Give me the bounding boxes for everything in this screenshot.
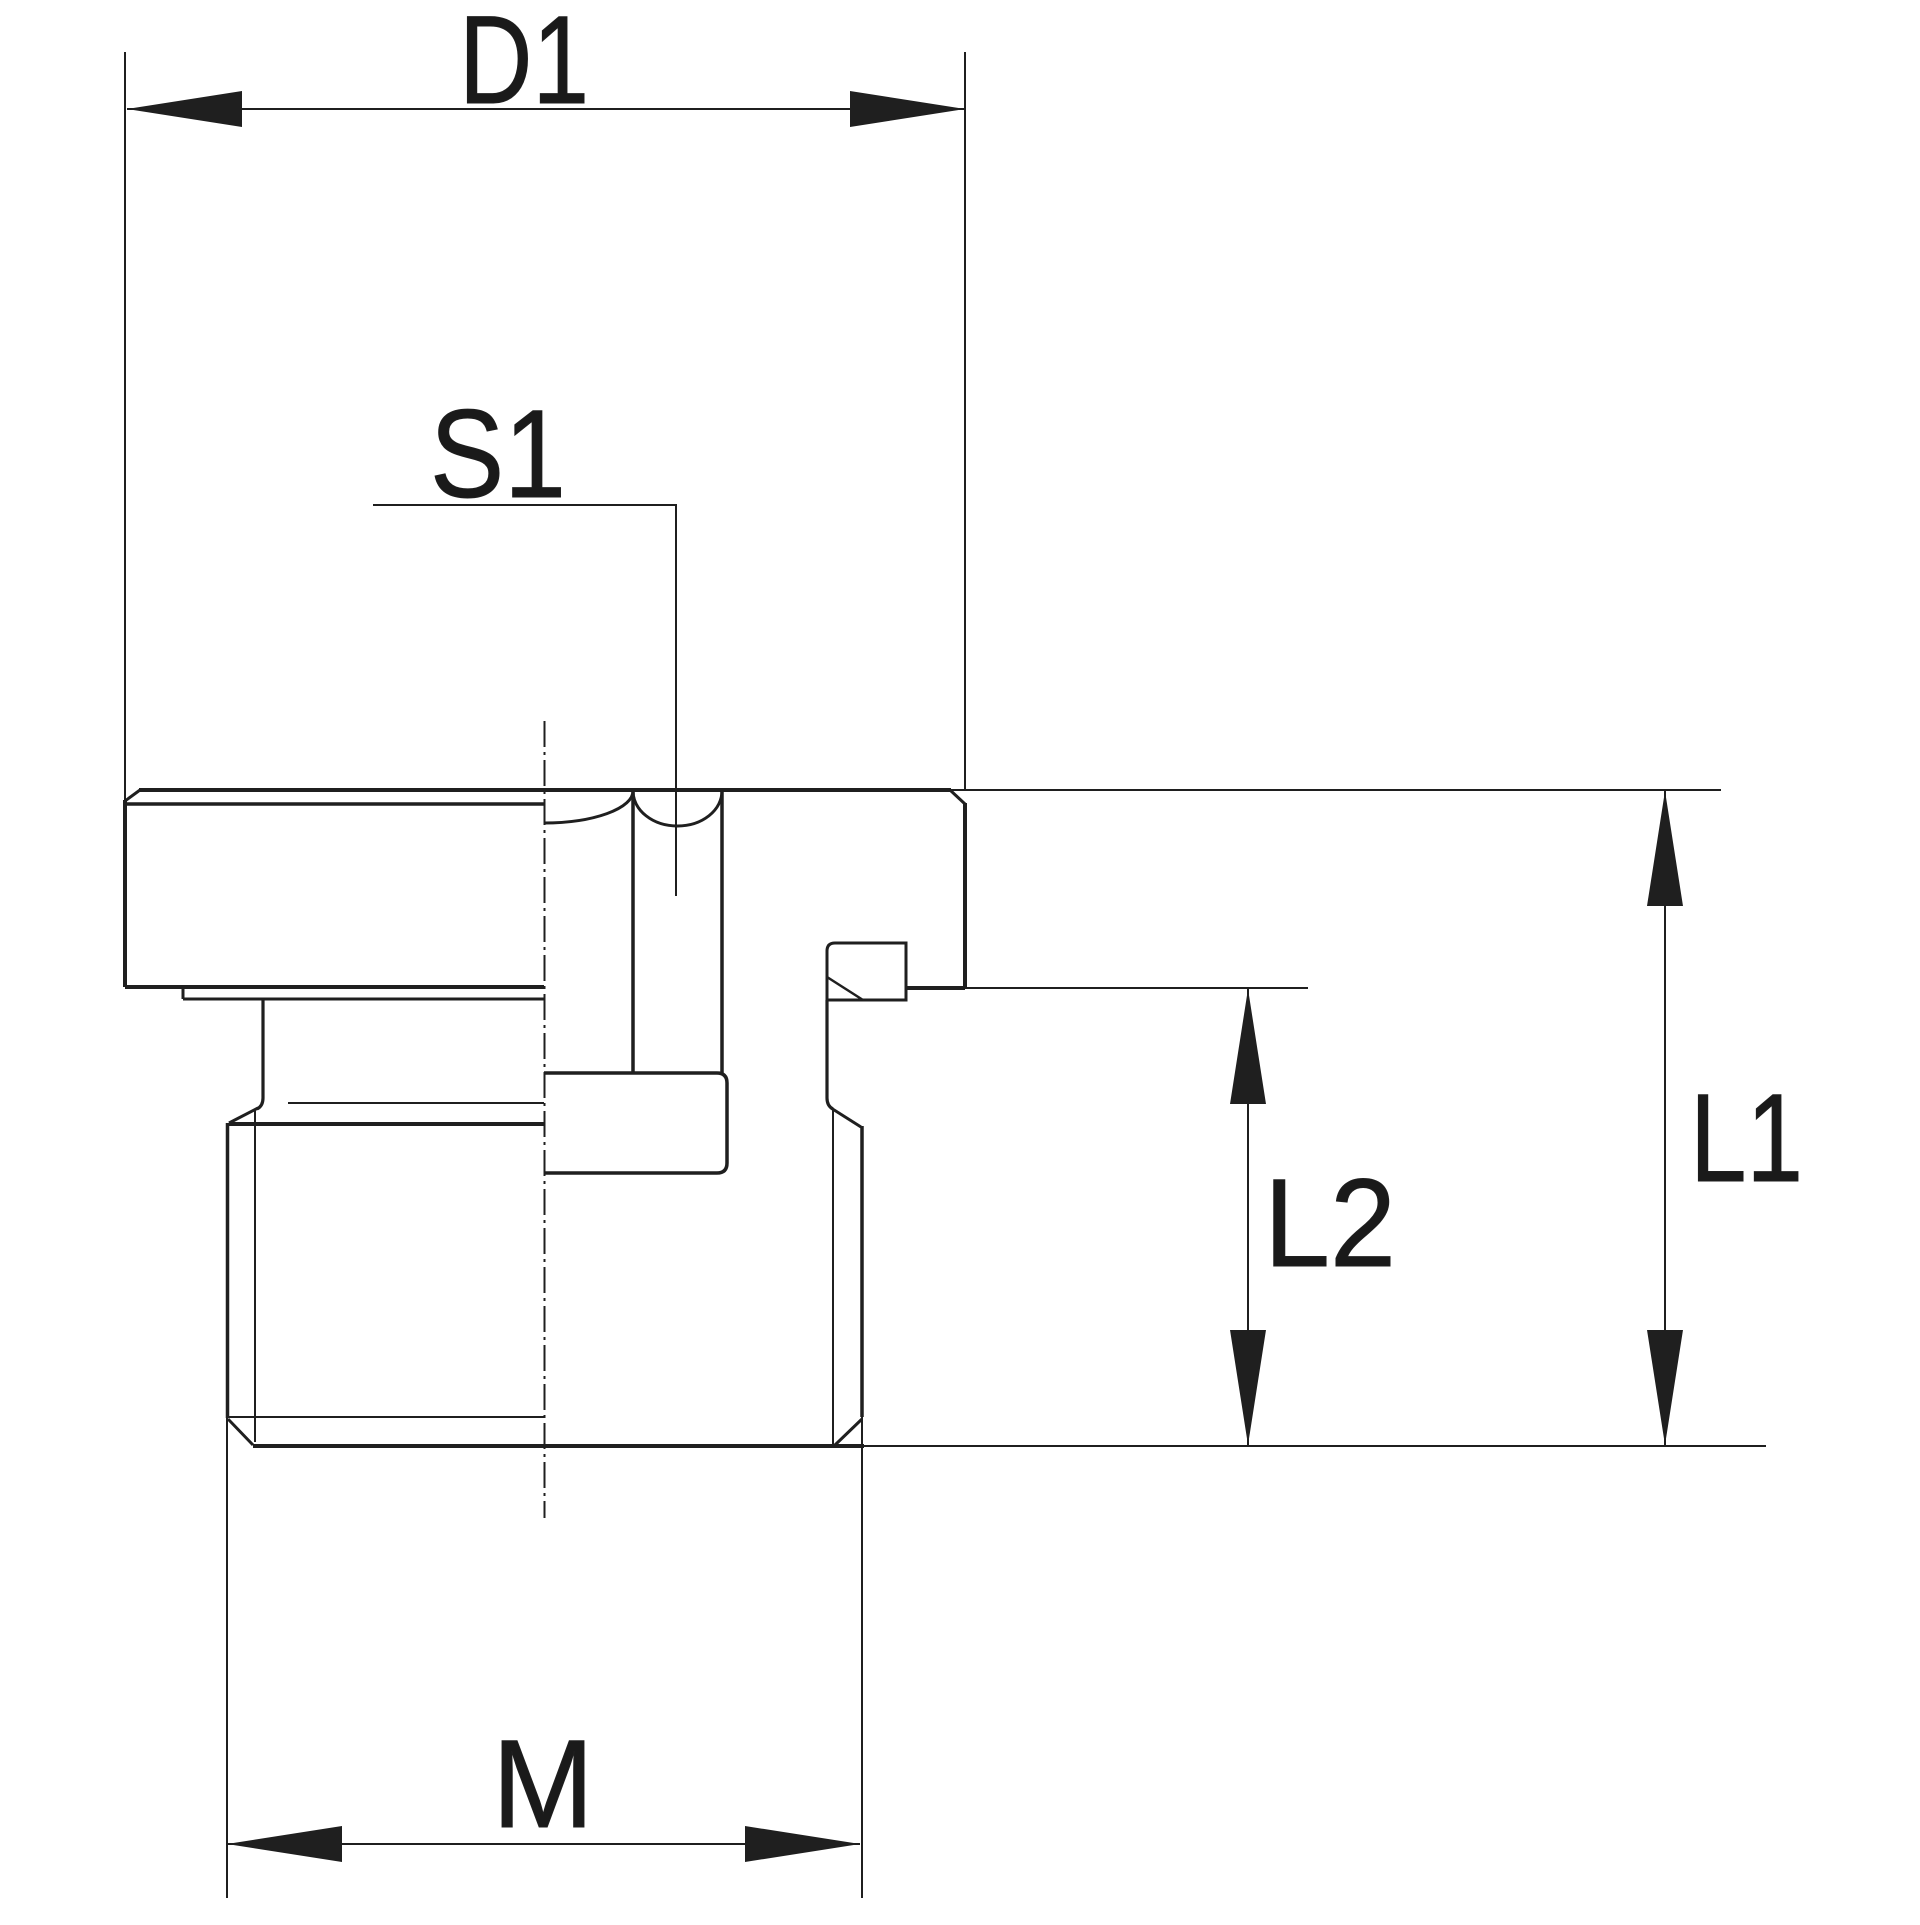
extension line L1/L2 bottom xyxy=(864,1445,1766,1447)
arrowhead L1 bottom xyxy=(1647,1330,1683,1445)
bottom face xyxy=(253,1444,864,1448)
hex chamfer arc left of corner xyxy=(544,791,633,823)
hex chamfer arc between corners xyxy=(633,791,722,826)
socket recess outline xyxy=(544,1073,727,1173)
extension line D1 left xyxy=(124,52,126,801)
leader line S1 xyxy=(373,505,676,896)
svg-text:S1: S1 xyxy=(430,385,566,524)
head right edge xyxy=(963,803,967,988)
dimension line M xyxy=(227,1843,860,1845)
arrowhead M right xyxy=(745,1826,860,1862)
hex corner line B xyxy=(720,791,724,1073)
head top-left chamfer xyxy=(125,790,140,801)
arrowhead D1 left xyxy=(127,91,242,127)
arrowhead L2 bottom xyxy=(1230,1330,1266,1445)
arrowhead L2 top xyxy=(1230,989,1266,1104)
extension line L2 top xyxy=(965,987,1308,989)
svg-text:L2: L2 xyxy=(1264,1154,1396,1293)
dimension line L2 xyxy=(1247,989,1249,1445)
hex corner line A xyxy=(631,791,635,1073)
head bottom edge right xyxy=(906,986,965,990)
thread shoulder line xyxy=(229,1122,544,1126)
head left edge xyxy=(123,800,127,987)
neck chamfer left xyxy=(229,1108,258,1123)
bottom chamfer left xyxy=(228,1419,253,1445)
extension line D1 right xyxy=(964,52,966,790)
head top-right chamfer xyxy=(950,790,965,804)
head chamfer line left face xyxy=(125,802,544,806)
groove section diagonal xyxy=(827,977,863,1000)
thread root line left xyxy=(254,1109,256,1442)
neck left edge xyxy=(257,999,263,1109)
arrowhead D1 right xyxy=(850,91,965,127)
extension line M right xyxy=(861,1417,863,1898)
svg-text:M: M xyxy=(492,1715,594,1854)
head top edge xyxy=(139,788,951,792)
svg-text:D1: D1 xyxy=(459,0,589,130)
washer lip left edge xyxy=(182,987,185,999)
thread end line xyxy=(228,1416,544,1418)
centerline xyxy=(544,721,546,1518)
washer lip bottom xyxy=(183,998,544,1001)
arrowhead M left xyxy=(227,1826,342,1862)
dimension line L1 xyxy=(1664,791,1666,1445)
bottom chamfer right xyxy=(835,1419,862,1445)
thread undercut groove outline xyxy=(827,943,906,1000)
thread runout line xyxy=(288,1102,544,1104)
extension line M left xyxy=(226,1418,228,1898)
extension line L1 top xyxy=(951,789,1721,791)
dimension line D1 xyxy=(127,108,965,110)
thread major line left xyxy=(226,1123,230,1418)
thread root line right xyxy=(832,1110,834,1445)
arrowhead L1 top xyxy=(1647,791,1683,906)
head bottom edge left xyxy=(125,985,544,989)
thread major line right xyxy=(860,1126,864,1417)
neck chamfer right xyxy=(831,1108,861,1127)
svg-text:L1: L1 xyxy=(1690,1069,1803,1208)
neck right edge xyxy=(827,1000,833,1109)
